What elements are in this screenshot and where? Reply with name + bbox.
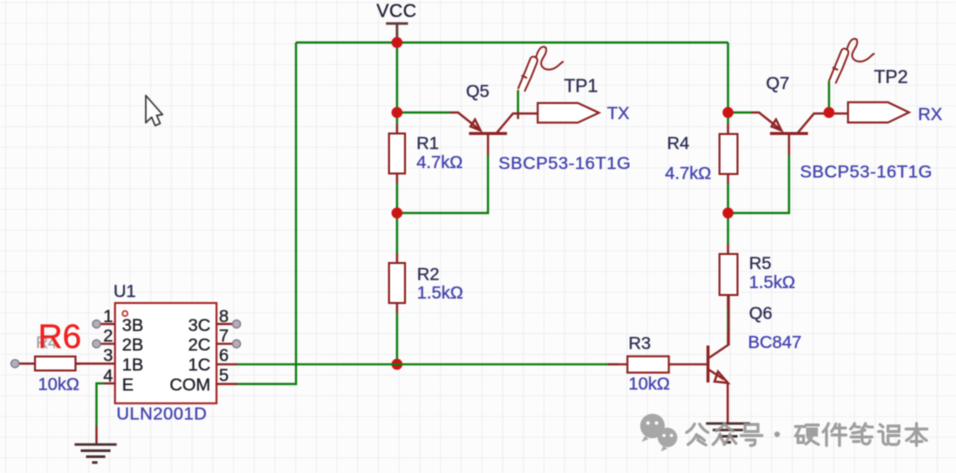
svg-text:1C: 1C bbox=[188, 355, 210, 375]
U1 pin 2 bbox=[93, 326, 116, 348]
svg-text:ULN2001D: ULN2001D bbox=[117, 404, 208, 424]
junction node base row left bbox=[392, 208, 403, 219]
svg-text:3B: 3B bbox=[122, 315, 143, 335]
junction node emitter row left bbox=[392, 107, 403, 118]
U1 pin 1 bbox=[93, 306, 116, 328]
junction node VCC rail bbox=[392, 37, 403, 48]
wire R4 to R5 bbox=[727, 183, 729, 244]
wire Q5 emitter bbox=[397, 111, 450, 113]
svg-text:10kΩ: 10kΩ bbox=[629, 374, 670, 394]
svg-text:3: 3 bbox=[103, 345, 113, 365]
ground left bbox=[75, 445, 117, 463]
wire top horizontal VCC rail bbox=[296, 41, 728, 43]
svg-text:4.7kΩ: 4.7kΩ bbox=[417, 152, 463, 172]
wire left loop vertical to pin5 bbox=[236, 43, 296, 385]
IC U1 ULN2001D bbox=[115, 303, 217, 403]
watermark wechat icon bbox=[640, 414, 677, 452]
resistor R5 bbox=[720, 244, 738, 345]
wire vertical right column (rail to R4) bbox=[727, 43, 729, 125]
ground right bbox=[706, 424, 750, 443]
testpoint TP2 bbox=[848, 102, 909, 122]
transistor Q5 (PNP) bbox=[450, 113, 538, 156]
power VCC symbol bbox=[386, 24, 408, 43]
svg-text:1.5kΩ: 1.5kΩ bbox=[749, 272, 795, 292]
svg-text:TP1: TP1 bbox=[564, 75, 598, 96]
wire Q5 base down to node bbox=[397, 155, 488, 213]
watermark text (vector CJK strokes) bbox=[687, 424, 928, 446]
mouse cursor bbox=[146, 96, 163, 126]
U1 pin 7 bbox=[217, 326, 241, 348]
svg-text:4.7kΩ: 4.7kΩ bbox=[665, 163, 711, 183]
svg-text:VCC: VCC bbox=[377, 0, 417, 21]
wire Q7 emitter bbox=[728, 111, 751, 113]
U1 pin1 mark bbox=[122, 311, 127, 316]
svg-text:Q7: Q7 bbox=[766, 73, 789, 93]
svg-text:5: 5 bbox=[219, 365, 229, 385]
resistor R6 bbox=[11, 357, 80, 371]
svg-text:10kΩ: 10kΩ bbox=[38, 374, 79, 394]
svg-text:R5: R5 bbox=[749, 253, 771, 273]
junction node drive row bbox=[392, 359, 403, 370]
U1 pin 8 bbox=[217, 306, 241, 328]
probe TP1 bbox=[518, 47, 564, 92]
svg-text:Q5: Q5 bbox=[466, 81, 489, 101]
wire R2 to row3 bbox=[396, 313, 398, 364]
svg-text:TP2: TP2 bbox=[874, 66, 908, 87]
svg-text:2C: 2C bbox=[188, 335, 210, 355]
svg-text:R6: R6 bbox=[38, 318, 81, 356]
wire vertical left column (VCC to R1) bbox=[396, 43, 398, 125]
svg-text:Q6: Q6 bbox=[749, 303, 772, 323]
wire pin4 E to ground bbox=[97, 383, 105, 426]
wire probe TP1 drop bbox=[517, 90, 519, 113]
U1 pin 5 bbox=[217, 365, 238, 385]
svg-text:SBCP53-16T1G: SBCP53-16T1G bbox=[800, 162, 932, 182]
junction node TP2 probe bbox=[824, 107, 835, 118]
wire ground stub left bbox=[95, 426, 97, 444]
probe TP2 bbox=[829, 39, 875, 84]
junction node right emitter row bbox=[723, 107, 734, 118]
U1 pin 6 bbox=[217, 345, 238, 365]
wire probe TP2 drop bbox=[828, 81, 830, 113]
U1 pin 3 bbox=[76, 345, 116, 365]
svg-text:TX: TX bbox=[607, 103, 630, 123]
transistor Q6 (NPN) bbox=[708, 295, 729, 423]
svg-text:COM: COM bbox=[170, 375, 211, 395]
svg-text:1: 1 bbox=[103, 306, 113, 326]
svg-text:R2: R2 bbox=[417, 264, 439, 284]
wire Q7 base down to node bbox=[728, 155, 789, 213]
svg-text:6: 6 bbox=[219, 345, 229, 365]
svg-text:BC847: BC847 bbox=[748, 332, 802, 352]
svg-text:2: 2 bbox=[103, 326, 113, 346]
svg-text:U1: U1 bbox=[114, 281, 136, 301]
U1 pin 4 bbox=[103, 366, 115, 386]
resistor R2 bbox=[389, 253, 405, 313]
resistor R4 bbox=[720, 124, 738, 183]
wire R1 to R2 bbox=[396, 183, 398, 253]
svg-text:7: 7 bbox=[219, 326, 229, 346]
svg-text:2B: 2B bbox=[122, 335, 143, 355]
svg-text:3C: 3C bbox=[188, 315, 210, 335]
svg-text:E: E bbox=[122, 375, 134, 395]
testpoint TP1 bbox=[538, 103, 599, 123]
svg-text:1.5kΩ: 1.5kΩ bbox=[417, 283, 463, 303]
wire drive row pin6 to R3 bbox=[236, 363, 618, 365]
junction node right base row bbox=[723, 208, 734, 219]
svg-text:RX: RX bbox=[918, 104, 943, 124]
svg-text:4: 4 bbox=[103, 366, 113, 386]
svg-text:8: 8 bbox=[219, 306, 229, 326]
svg-text:1B: 1B bbox=[122, 355, 143, 375]
svg-text:R4: R4 bbox=[667, 133, 690, 153]
transistor Q7 (PNP) bbox=[751, 113, 848, 156]
svg-text:R1: R1 bbox=[417, 133, 439, 153]
svg-text:R3: R3 bbox=[629, 333, 651, 353]
resistor R1 bbox=[389, 124, 405, 183]
resistor R3 bbox=[608, 356, 708, 372]
svg-text:SBCP53-16T1G: SBCP53-16T1G bbox=[499, 153, 631, 173]
